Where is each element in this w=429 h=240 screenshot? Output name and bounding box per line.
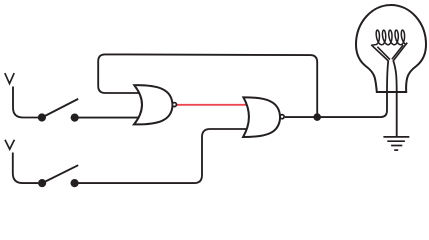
lamp DS1 left support arm outer <box>371 45 388 61</box>
switch S2 throw contact <box>71 179 79 187</box>
node V2 label <box>5 140 14 150</box>
lamp DS1 left lead-in wire <box>387 61 388 93</box>
lamp DS1 filament coil <box>372 30 408 45</box>
junction output node <box>313 113 321 121</box>
lamp DS1 right support arm inner <box>392 45 403 59</box>
NOR gate U2 inversion bubble <box>280 115 284 119</box>
lamp DS1 left support arm inner <box>377 47 390 60</box>
node V1 label <box>5 73 14 84</box>
wire V1 terminal lead <box>13 87 38 118</box>
wire V2 terminal lead <box>13 153 38 184</box>
lamp DS1 right support arm outer <box>393 43 407 61</box>
wire switch S1 to gate U1 lower input <box>78 117 140 119</box>
switch S1 lever (open) <box>42 99 78 118</box>
wire feedback from output node to gate U1 upper input <box>98 54 317 117</box>
switch S1 pole contact <box>38 113 46 121</box>
wire red from gate U1 output to gate U2 upper input <box>177 104 246 106</box>
ground bar 3 <box>391 145 402 147</box>
NOR gate U1 inversion bubble <box>172 103 176 107</box>
switch S2 pole contact <box>38 179 46 187</box>
wire gate U2 output to lamp <box>285 92 387 117</box>
wire switch S2 to gate U2 lower input <box>78 129 246 183</box>
wire lamp to ground <box>396 92 398 137</box>
switch S1 throw contact <box>71 114 79 122</box>
NOR gate U2 body <box>243 97 280 137</box>
ground bar 1 <box>383 136 409 138</box>
switch S2 lever (open) <box>42 165 78 183</box>
ground bar 4 <box>394 149 398 151</box>
ground bar 2 <box>387 140 405 142</box>
lamp DS1 glass envelope <box>356 5 426 92</box>
lamp DS1 right lead-in wire <box>393 61 397 93</box>
NOR gate U1 body <box>134 85 173 124</box>
